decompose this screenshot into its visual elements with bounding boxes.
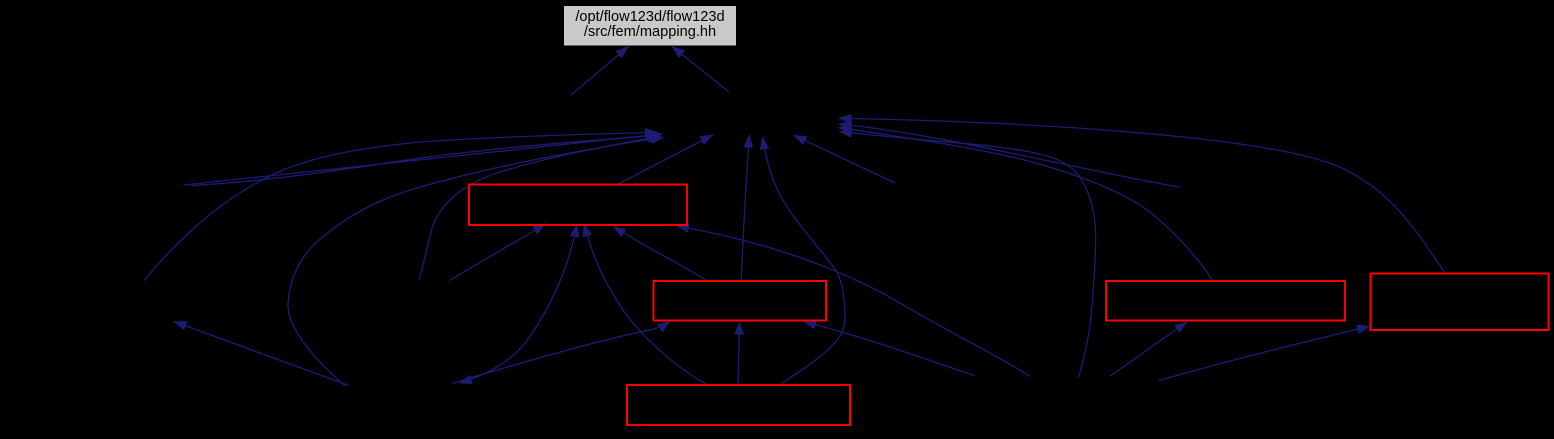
wire e10 B4 to N2	[794, 135, 895, 183]
wire e22 P2 to N2	[840, 132, 1096, 378]
wire e1 node N1 to mapping.hh	[571, 47, 628, 95]
wire e6 B1 to N2	[617, 135, 713, 185]
wire e5b P1 to N2 inner curve	[419, 136, 660, 280]
node B2 red box	[654, 281, 827, 321]
wire e17 B2 to B1	[614, 227, 707, 281]
wire e24 B4 to N2 right side	[839, 128, 1213, 281]
wire e23 P2 to B4	[1110, 322, 1187, 376]
wire e5a P1 to N2 outer curve	[288, 137, 664, 386]
node B4 red box	[1106, 281, 1345, 321]
wire e4 L2 to N2	[144, 133, 658, 281]
wire e26 B5 to N2 right side	[839, 118, 1445, 272]
wire e3b L1 to N1 second edge	[191, 135, 659, 185]
wire e20 D1 to B2	[738, 322, 739, 385]
wire e18 P2 to B1	[677, 226, 1031, 377]
node D1 red box	[627, 385, 850, 425]
wire eB2N2 B2 to N2	[741, 135, 749, 281]
wire e19 P1 to B2	[452, 321, 670, 383]
wire e27 R1 to N2 right side	[839, 124, 1179, 187]
wire e9 D1 to N2 right S-curve	[763, 137, 846, 385]
node N0 label	[564, 10, 736, 39]
wire e14 M1 to B1	[449, 224, 545, 281]
wire e15 B1-P1 bidirectional cycle edge	[460, 225, 578, 384]
wire e3 L1 to N2	[184, 134, 662, 185]
node N0 gray box /opt/flow123d/flow123d/src/fem/mapping.hh	[564, 6, 736, 46]
node B5 red box	[1371, 274, 1549, 331]
wire e21 P2 to B2	[804, 322, 976, 376]
wire e25 P2 to B5	[1159, 326, 1370, 380]
node B1 red box fe_values.hh	[469, 185, 687, 226]
wire e16 D1 to B1	[584, 224, 707, 385]
wire e2 node N2 to mapping.hh	[672, 47, 729, 92]
wire e28 P1 to L2	[174, 322, 349, 386]
